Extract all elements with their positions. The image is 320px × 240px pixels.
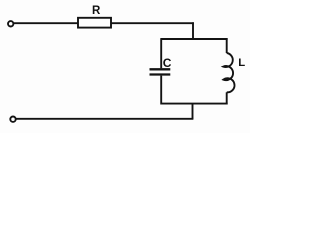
wire: tank left edge lower (capacitor bottom lead) xyxy=(160,76,162,105)
wire: tank bottom edge xyxy=(161,103,228,105)
wire: down from top wire to tank top xyxy=(192,22,194,40)
wire: tank right edge lower (inductor bottom lead) xyxy=(226,92,228,104)
wire: tank top edge xyxy=(161,38,228,40)
wire: tank left edge upper (capacitor top lead) xyxy=(160,38,162,68)
svg-text:C: C xyxy=(163,56,172,70)
wire: bottom rail to bottom terminal xyxy=(16,118,193,120)
inductor L coil xyxy=(223,53,234,92)
svg-text:L: L xyxy=(238,57,245,69)
wire: down from tank bottom to bottom rail xyxy=(192,104,194,119)
terminal T1 (top-left input) xyxy=(8,21,13,26)
resistor R xyxy=(78,18,111,28)
wire: resistor to top junction xyxy=(111,22,194,24)
capacitor C plates xyxy=(150,68,171,70)
svg-text:R: R xyxy=(92,5,101,17)
terminal T2 (bottom-left input) xyxy=(10,117,15,122)
wire: top terminal to resistor xyxy=(14,22,78,24)
wire: tank right edge upper (inductor top lead) xyxy=(226,38,228,53)
